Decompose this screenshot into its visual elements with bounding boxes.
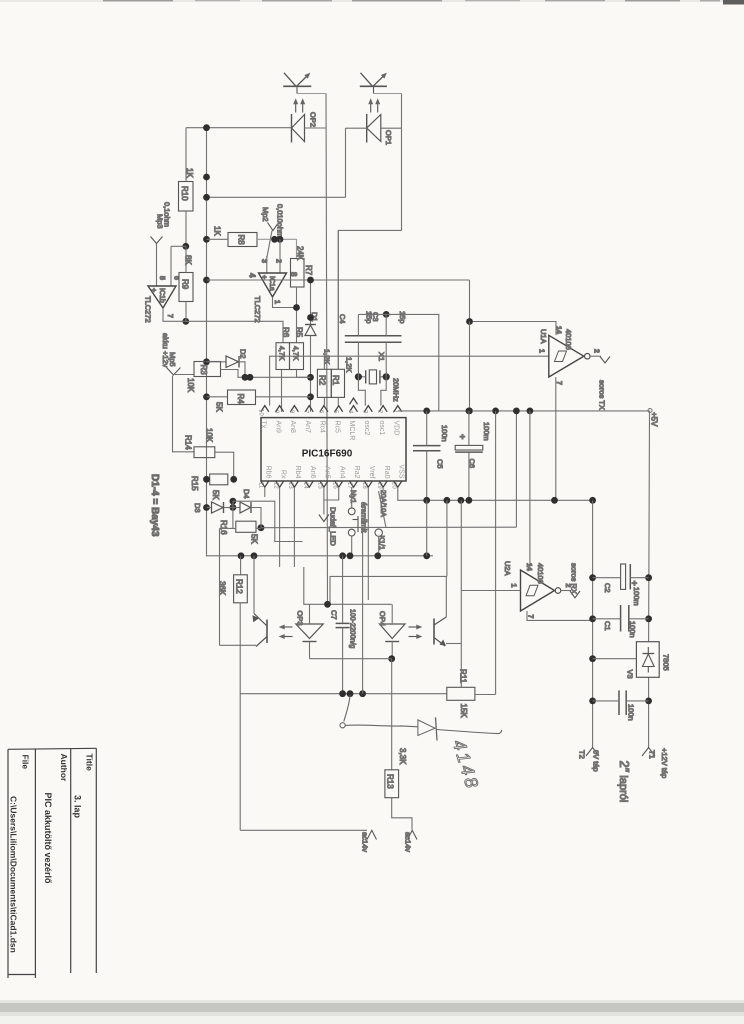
svg-text:C1: C1 (603, 621, 612, 631)
svg-text:11: 11 (258, 482, 264, 489)
svg-text:VSS: VSS (398, 464, 405, 478)
svg-text:IC1b: IC1b (158, 288, 165, 303)
wire pin17 label aramlimit (367, 487, 369, 600)
wire OP3/OP4 LED top row (304, 567, 392, 604)
svg-text:áramlimit: áramlimit (360, 502, 369, 533)
capacitor C1 (593, 605, 649, 638)
svg-text:TLC272: TLC272 (253, 296, 262, 323)
svg-text:5: 5 (158, 276, 165, 280)
bottom page shadow band (0, 1002, 744, 1014)
svg-text:C4: C4 (338, 314, 347, 324)
svg-text:R15: R15 (190, 476, 199, 491)
svg-text:3: 3 (260, 259, 267, 263)
svg-text:C:\Users\Liliom\Documents\tiCa: C:\Users\Liliom\Documents\tiCad1.dsn (9, 796, 19, 953)
wire vertical +5V to U2A pin14 (529, 411, 531, 570)
diode D4 (233, 489, 261, 528)
svg-text:Dudaf_LED: Dudaf_LED (329, 507, 338, 546)
wire pin12 pin13 stubs (279, 487, 281, 567)
svg-text:IC1a: IC1a (268, 276, 275, 291)
svg-text:OP4: OP4 (378, 611, 387, 626)
inverter U2A (503, 561, 571, 619)
opto OP2 phototransistor (283, 73, 326, 94)
capacitors C3/C4 (338, 311, 407, 377)
svg-text:14: 14 (555, 326, 562, 334)
wire Mp5 to R3 (175, 374, 194, 376)
resistor R4 (228, 390, 256, 405)
svg-text:2: 2 (275, 259, 282, 263)
wire cap top rail y=314.4 (358, 314, 438, 411)
switch K1/1 (375, 487, 386, 556)
svg-text:100n: 100n (628, 621, 637, 638)
wire OP1 bottom jog (338, 230, 401, 369)
wire long row y=527.5 (261, 526, 516, 529)
svg-text:+: + (150, 288, 157, 292)
wire OP4 collector row (330, 576, 447, 604)
svg-text:R11: R11 (459, 669, 468, 684)
wire LED bottom node down to R13 (391, 659, 393, 770)
capacitor C5 (413, 411, 449, 500)
opto OP3 LED (282, 604, 323, 658)
wire R13 to terminal (392, 798, 412, 830)
svg-text:4,7K: 4,7K (278, 346, 285, 361)
wire 0V rail down (592, 500, 594, 747)
svg-text:10: 10 (258, 409, 264, 416)
terminal T1 +12V (642, 748, 669, 779)
svg-text:VDD: VDD (393, 421, 400, 436)
svg-text:Rx: Rx (279, 470, 286, 479)
opto OP2 LED (292, 102, 305, 143)
junction dots lower rail (339, 690, 366, 697)
svg-text:C7: C7 (330, 610, 339, 620)
svg-text:Mp2: Mp2 (261, 207, 270, 222)
test point Mp3 (151, 202, 172, 286)
capacitor C6 electrolytic (455, 411, 491, 500)
wire R10 bottom (185, 211, 187, 246)
svg-text:15: 15 (317, 482, 323, 489)
wire Tx row y=356.2 to U1A input (270, 356, 549, 405)
resistor R11 (447, 687, 475, 700)
svg-text:K1/1: K1/1 (378, 536, 385, 551)
svg-text:0,010ohm: 0,010ohm (276, 204, 285, 237)
resistor R6 (276, 343, 290, 370)
resistor R15 (210, 474, 228, 485)
svg-text:R2: R2 (318, 375, 327, 386)
svg-text:U1A: U1A (539, 329, 548, 344)
svg-text:OP3: OP3 (296, 611, 305, 626)
regulator V3 7805 (626, 642, 671, 679)
wire osc feed corner to U1A supply (470, 280, 557, 335)
svg-text:15p: 15p (398, 311, 407, 324)
svg-text:Rc4: Rc4 (319, 421, 326, 434)
capacitor C2 electrolytic (593, 564, 649, 606)
svg-text:18: 18 (361, 482, 367, 489)
wire OP1 right lead (381, 127, 402, 129)
svg-text:5K: 5K (215, 402, 224, 412)
wire U2A pin7 to 0V rail (527, 611, 593, 620)
svg-text:R4: R4 (236, 394, 245, 405)
wire R5 bottom to node (297, 370, 311, 378)
svg-text:C3: C3 (371, 312, 380, 322)
svg-text:R14: R14 (184, 435, 193, 450)
svg-text:Ny1: Ny1 (349, 490, 358, 503)
pushbutton Ny1 (348, 487, 358, 556)
wire OP1 feed vertical (345, 128, 347, 197)
junction dots U1A feed (466, 318, 473, 414)
wire node to R5 top (296, 308, 298, 343)
connector soros TX (590, 356, 610, 410)
wire R8 right to R7 top (257, 239, 297, 258)
svg-text:7: 7 (166, 314, 173, 318)
svg-text:24K: 24K (296, 246, 305, 261)
top pin names (260, 421, 400, 441)
svg-text:PIC akkutöltő vezérlő: PIC akkutöltő vezérlő (43, 793, 53, 885)
svg-text:36K: 36K (218, 581, 227, 596)
svg-text:100-2200n/g: 100-2200n/g (349, 609, 356, 648)
wire main horizontal y=280 (207, 279, 470, 281)
svg-text:100m: 100m (632, 587, 641, 606)
svg-text:osc1: osc1 (378, 421, 385, 436)
svg-text:R9: R9 (181, 279, 190, 290)
wire bottom rail y=555.8 (207, 555, 434, 556)
svg-text:13: 13 (287, 482, 293, 489)
wire crystal right to osc pin (381, 377, 386, 406)
junction dots D2 node (242, 374, 254, 381)
svg-text:+: + (630, 581, 640, 586)
svg-text:R5: R5 (295, 327, 304, 338)
wire OP1 left lead (346, 127, 367, 129)
wire crystal left to osc pin (358, 377, 365, 406)
resistor R12 (234, 575, 248, 603)
svg-text:R6: R6 (281, 327, 290, 338)
svg-text:ac14v: ac14v (404, 832, 413, 852)
terminal ac14v left (361, 830, 377, 852)
svg-text:40106: 40106 (536, 563, 545, 584)
svg-text:T2: T2 (578, 750, 587, 759)
wire IC1a output pin1 (273, 297, 297, 308)
wire pin11 stub (264, 487, 266, 497)
svg-text:PIC16F690: PIC16F690 (302, 449, 353, 460)
diode D2 (207, 349, 248, 377)
wire node D3/D4 row to upper row (232, 501, 234, 507)
top pin numbers (258, 409, 398, 416)
svg-text:R13: R13 (386, 774, 395, 789)
svg-text:R12: R12 (235, 579, 244, 594)
svg-text:+: + (260, 275, 267, 279)
svg-text:C2: C2 (603, 583, 612, 593)
svg-text:R8: R8 (237, 235, 246, 246)
+5V rail (398, 410, 650, 412)
wire long vertical from OP2 down to opto row (326, 94, 328, 605)
test point Mp5 / akku (161, 333, 181, 375)
svg-text:+12V táp: +12V táp (660, 748, 669, 778)
resistor R1 (331, 369, 344, 397)
wire OP2 anode (186, 127, 292, 129)
bottom pin numbers (258, 482, 397, 489)
svg-text:+5V: +5V (650, 412, 659, 427)
wire OP1 right vertical (401, 94, 403, 231)
wire 7805 gnd pin (593, 658, 637, 660)
resistor R9 (179, 273, 193, 302)
wire R2 leads (323, 356, 325, 369)
bottom pin names (265, 464, 405, 479)
wire R1 bottom (337, 397, 339, 405)
wire D4 node down / R16 (232, 508, 234, 529)
wire osc1 feed from OP1 branch (337, 230, 339, 369)
resistor R10 (179, 182, 194, 212)
test point Mp2 (261, 204, 285, 258)
svg-text:4,7K: 4,7K (292, 346, 299, 361)
wire R8 left (207, 238, 229, 240)
wire VSS pin20 to rail (398, 487, 593, 500)
svg-text:D1-4 = Bay43: D1-4 = Bay43 (149, 474, 160, 537)
svg-text:100m: 100m (482, 422, 491, 441)
wire Mp3 row to R9 (171, 245, 186, 247)
diode D3 (193, 502, 233, 513)
svg-text:1: 1 (273, 300, 280, 304)
svg-text:Ra2: Ra2 (353, 466, 360, 479)
capacitor 100n bottom (593, 690, 649, 720)
title block texts (9, 754, 95, 953)
wire vertical +5V to R11 right (495, 411, 497, 695)
svg-text:20MHz: 20MHz (392, 378, 401, 402)
test point DudafLED (319, 487, 339, 546)
svg-text:40106: 40106 (564, 329, 573, 350)
svg-text:Title: Title (85, 754, 95, 772)
diode D1 (305, 280, 319, 412)
junction dots crystal (355, 311, 390, 380)
wire from D3/D4 node right y=501.2 (233, 501, 303, 541)
svg-text:U2A: U2A (503, 561, 512, 576)
wire OP3/OP4 LED bottom row (310, 658, 392, 660)
svg-text:1: 1 (538, 349, 545, 353)
op-amp IC1a pins 2,3 (266, 256, 268, 273)
svg-text:1: 1 (510, 584, 517, 588)
svg-text:C6: C6 (468, 459, 477, 469)
svg-text:An9: An9 (274, 421, 281, 434)
svg-text:An4: An4 (338, 466, 345, 479)
wire main left vertical x=206.5 (206, 128, 208, 555)
junction dots D1 branch (293, 277, 314, 401)
svg-text:Vref: Vref (368, 466, 375, 479)
svg-text:6: 6 (173, 276, 180, 280)
svg-text:Ra0: Ra0 (383, 466, 390, 479)
svg-text:osc2: osc2 (363, 421, 370, 436)
svg-text:5K: 5K (250, 534, 259, 544)
opto OP1 phototransistor (360, 73, 402, 94)
resistor R7 (291, 259, 305, 288)
crystal X1 (358, 352, 400, 402)
junction dots bottom rail (238, 552, 431, 559)
svg-text:8K: 8K (184, 255, 193, 265)
svg-text:R1: R1 (331, 375, 340, 386)
svg-text:An6: An6 (309, 466, 316, 479)
svg-text:0V táp: 0V táp (592, 750, 601, 772)
junction dots near Mp2 (271, 236, 283, 243)
svg-text:V3: V3 (626, 670, 635, 679)
bottom pin chevrons (261, 481, 402, 487)
svg-text:2″ lapról: 2″ lapról (617, 761, 632, 803)
svg-text:0,1ohm: 0,1ohm (163, 202, 172, 227)
svg-text:100n: 100n (440, 425, 449, 442)
svg-text:16: 16 (331, 482, 337, 489)
svg-text:T1: T1 (648, 750, 657, 759)
svg-text:Tx: Tx (260, 421, 267, 429)
svg-text:Rb4: Rb4 (294, 466, 301, 479)
opto OP1 LED (367, 102, 381, 143)
wire horizontal to OP1 (207, 196, 346, 198)
svg-text:3. lap: 3. lap (73, 795, 83, 819)
wire R6 bottom to pin9 (281, 370, 283, 412)
svg-text:TLC272: TLC272 (144, 296, 153, 323)
resistor R14 (194, 447, 215, 458)
inverter U1A (538, 326, 600, 385)
op-amp IC1a (248, 272, 299, 323)
svg-text:19: 19 (376, 482, 382, 489)
svg-text:An5: An5 (324, 466, 331, 479)
resistor R2 (317, 369, 331, 397)
svg-text:R10: R10 (180, 186, 189, 201)
svg-text:14: 14 (302, 482, 308, 489)
opto OP3 phototransistor (220, 556, 268, 647)
svg-text:5K: 5K (211, 490, 220, 500)
svg-text:D2: D2 (239, 349, 248, 359)
wire OP2 cathode to long vertical (305, 127, 327, 129)
svg-text:soros RX: soros RX (570, 563, 579, 594)
VSS rail dots (423, 497, 596, 504)
wire R10 top (185, 128, 187, 182)
svg-text:soros TX: soros TX (598, 380, 607, 410)
wire Mp5 down to R14 (173, 376, 195, 452)
top scanner edge (0, 0, 744, 2)
wire C5 branch down to bottom rail (426, 500, 428, 556)
svg-text:Author: Author (59, 754, 69, 783)
resistor R16 (236, 521, 256, 532)
resistor R8 (228, 233, 257, 247)
top pin chevrons (261, 398, 402, 412)
svg-text:Mp5: Mp5 (168, 352, 177, 367)
opto OP4 LED (378, 604, 419, 658)
resistor R3 (194, 362, 221, 377)
svg-text:20A/10A: 20A/10A (379, 490, 386, 517)
svg-text:7805: 7805 (662, 654, 671, 671)
wire bottom rail y=693.7 (240, 645, 447, 693)
svg-text:4: 4 (248, 273, 257, 278)
svg-text:OP2: OP2 (309, 112, 318, 127)
svg-text:File: File (21, 755, 31, 770)
svg-text:10K: 10K (186, 378, 195, 393)
svg-text:100n: 100n (627, 704, 636, 721)
IC PIC16F690 body (261, 418, 406, 481)
svg-text:ac14v: ac14v (361, 832, 370, 852)
wire R12/rail down to ac row (239, 694, 241, 831)
svg-text:D3: D3 (193, 503, 202, 513)
junction dots R15/D3/D4 (203, 476, 264, 531)
wire vertical to OP4 collector row (446, 500, 448, 576)
wire +5V right rail down (648, 411, 651, 642)
svg-text:1K: 1K (213, 226, 222, 236)
wire IC1b output pin7 (163, 308, 283, 343)
svg-text:OP1: OP1 (384, 130, 393, 145)
svg-text:An7: An7 (304, 421, 311, 434)
svg-text:R3: R3 (199, 365, 208, 376)
wire U1A pin7 to VSS rail (555, 377, 557, 500)
connector soros RX (561, 563, 580, 598)
svg-text:Rb6: Rb6 (265, 466, 272, 479)
svg-text:R7: R7 (304, 265, 313, 276)
terminal ac14v right (404, 830, 418, 852)
wire R7 bottom to node (296, 287, 298, 308)
wire vertical to emitter/R11 (460, 500, 462, 687)
svg-text:Rc5: Rc5 (333, 421, 340, 434)
resistor R5 (290, 343, 304, 370)
op-amp IC1b (144, 276, 180, 323)
svg-text:15K: 15K (459, 704, 468, 719)
svg-text:2: 2 (593, 349, 600, 353)
svg-text:20: 20 (391, 482, 397, 489)
svg-text:+: + (458, 434, 468, 439)
svg-text:10K: 10K (205, 428, 214, 443)
hand drawn wire with diode 4148 (340, 695, 502, 741)
svg-text:MCLR: MCLR (348, 421, 355, 441)
opto OP4 phototransistor (434, 576, 461, 646)
junction dots opto row (324, 601, 395, 662)
svg-text:1,2K: 1,2K (345, 357, 354, 372)
svg-text:An8: An8 (289, 421, 296, 434)
svg-text:R16: R16 (219, 520, 228, 535)
wire riser to +5V rail (515, 411, 517, 527)
wire emitter riser x=219.5 (219, 528, 221, 645)
svg-text:C5: C5 (436, 459, 445, 469)
svg-text:3,3K: 3,3K (398, 748, 407, 765)
svg-text:12: 12 (272, 482, 278, 489)
resistor R13 (385, 770, 399, 798)
junction dots left vertical (182, 124, 210, 400)
title block frame (8, 748, 96, 749)
terminal T2 0V (578, 748, 601, 772)
svg-text:14: 14 (525, 563, 532, 571)
wire riser from y=527 row (362, 527, 364, 694)
wire U2A input (461, 590, 520, 592)
junction dots +5V rail (423, 408, 533, 415)
junction dots power rails (589, 574, 652, 704)
capacitor C7 (330, 556, 356, 694)
wire R3 right + node row y=377.3 (221, 370, 311, 378)
svg-text:D4: D4 (242, 489, 251, 499)
